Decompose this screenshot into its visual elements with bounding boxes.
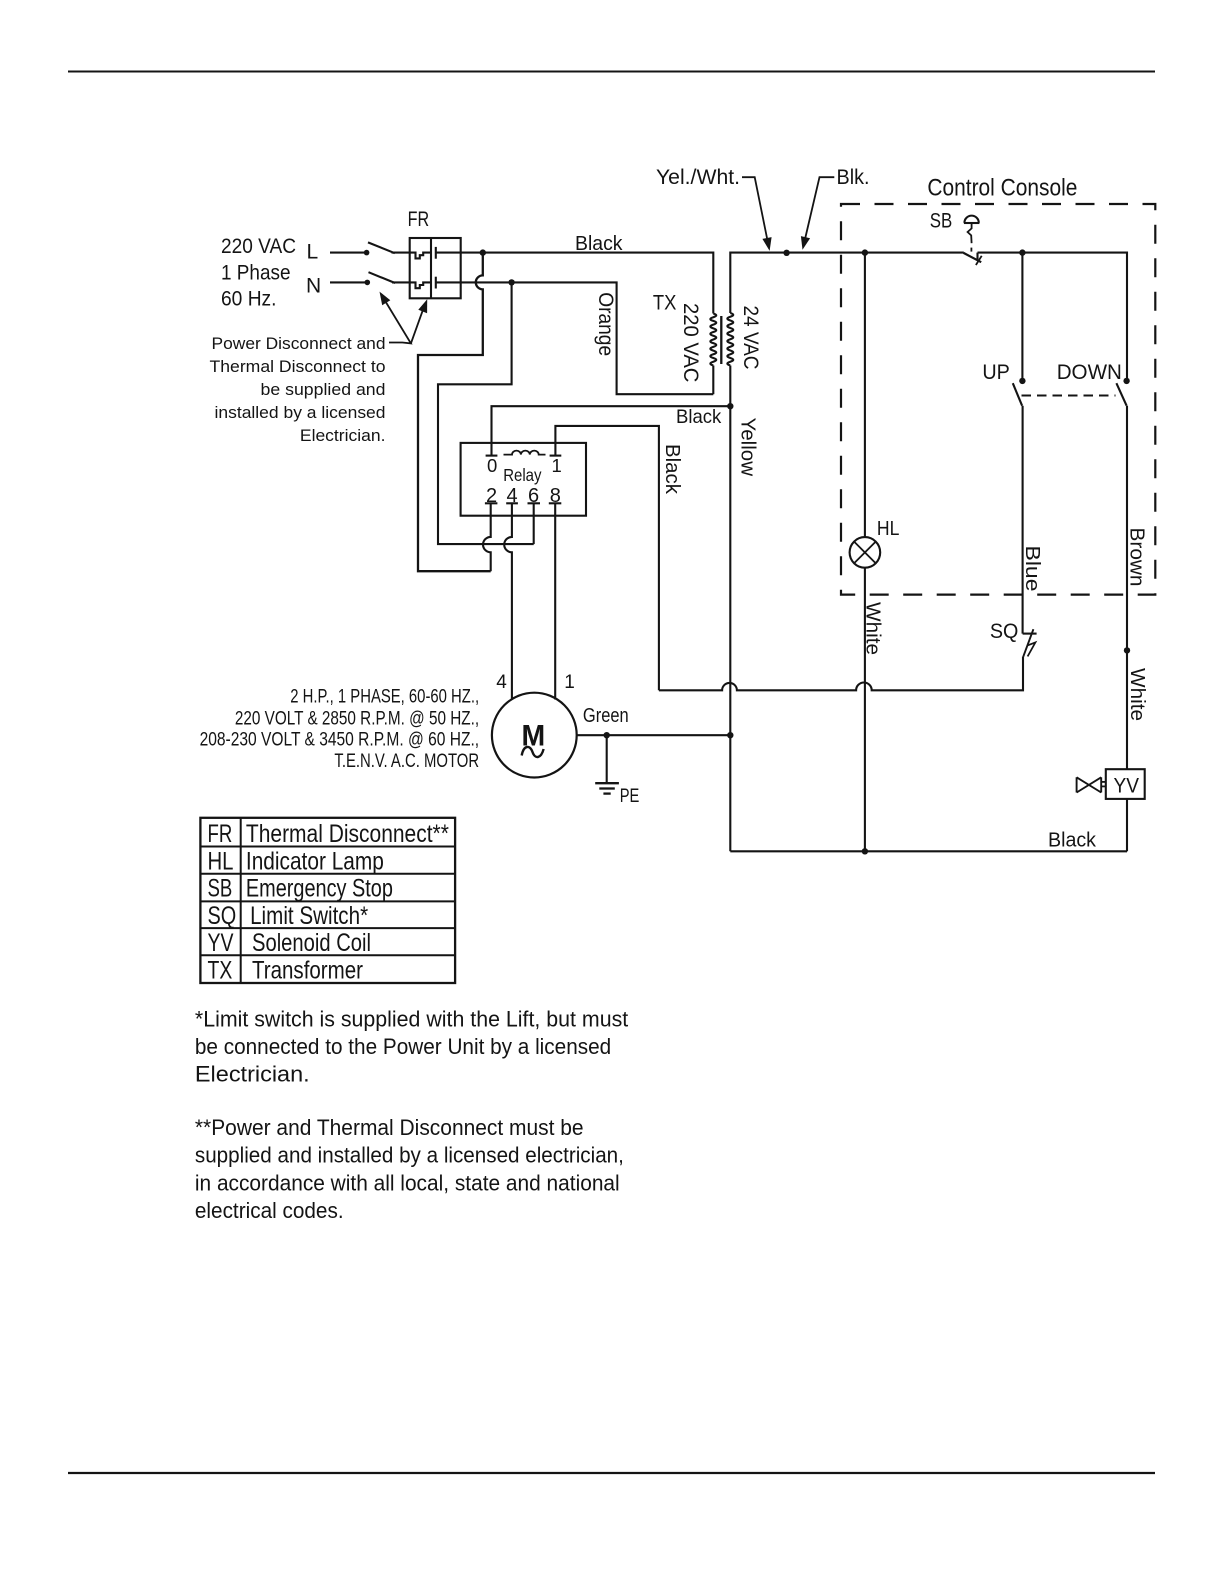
svg-text:HL: HL — [208, 847, 234, 875]
svg-text:FR: FR — [408, 208, 430, 231]
page top rule — [68, 71, 1155, 73]
SB blade tick — [976, 256, 982, 265]
transformer TX primary bottom lead — [712, 366, 714, 395]
relay pin 0 tick — [486, 455, 498, 457]
ground PE stem — [606, 735, 608, 782]
control console dashed box — [841, 204, 1155, 595]
FR contact bar N row — [435, 277, 437, 289]
node: junction on L wire — [480, 249, 486, 255]
svg-text:electrical codes.: electrical codes. — [195, 1198, 344, 1223]
svg-text:Indicator Lamp: Indicator Lamp — [246, 847, 384, 875]
svg-text:Yel./Wht.: Yel./Wht. — [656, 166, 740, 189]
relay pin 4 tick — [506, 502, 518, 504]
svg-text:White: White — [861, 602, 884, 655]
svg-text:T.E.N.V. A.C. MOTOR: T.E.N.V. A.C. MOTOR — [334, 751, 479, 772]
svg-text:YV: YV — [208, 929, 234, 957]
ground PE bars — [595, 782, 619, 784]
svg-text:4: 4 — [507, 485, 518, 507]
SQ upper terminal tick — [1023, 633, 1037, 635]
transformer TX primary winding — [710, 314, 716, 366]
svg-text:0: 0 — [487, 455, 497, 476]
svg-text:be supplied and: be supplied and — [261, 381, 386, 399]
svg-text:Brown: Brown — [1126, 528, 1149, 587]
svg-text:Green: Green — [583, 704, 629, 727]
svg-text:60 Hz.: 60 Hz. — [221, 287, 277, 311]
svg-text:SB: SB — [930, 210, 953, 233]
wire: Black from FR to transformer primary — [436, 253, 714, 314]
transformer TX secondary winding — [727, 313, 733, 366]
thermal disconnect FR box — [410, 238, 461, 298]
indicator lamp HL — [850, 537, 881, 568]
svg-text:**Power and Thermal Disconnect: **Power and Thermal Disconnect must be — [195, 1115, 584, 1140]
wire: YV to bottom rail — [1126, 799, 1128, 851]
wire: relay pin 1 up, right, down and along bottom with hops to SQ — [555, 426, 1023, 690]
motor sine mark — [522, 747, 544, 757]
svg-text:220 VOLT & 2850 R.P.M. @ 50 HZ: 220 VOLT & 2850 R.P.M. @ 50 HZ., — [235, 709, 479, 730]
svg-text:supplied and installed by a li: supplied and installed by a licensed ele… — [195, 1143, 624, 1168]
svg-text:24 VAC: 24 VAC — [739, 306, 762, 370]
svg-text:N: N — [306, 274, 321, 297]
svg-text:PE: PE — [620, 786, 640, 807]
node: UP switch contact — [1019, 378, 1025, 384]
FR thermal element N row — [392, 282, 431, 288]
node: junction on N wire — [508, 279, 514, 285]
svg-text:220 VAC: 220 VAC — [679, 303, 702, 382]
SB right terminal stub — [976, 253, 978, 260]
wire: L input lead — [330, 252, 367, 254]
svg-text:Yellow: Yellow — [737, 418, 760, 477]
svg-text:SQ: SQ — [990, 620, 1019, 643]
svg-text:Transformer: Transformer — [252, 957, 363, 985]
wire: Brown/White right side down to YV — [1126, 406, 1128, 770]
svg-text:be connected to the Power Unit: be connected to the Power Unit by a lice… — [195, 1034, 611, 1059]
switch blade: power disconnect N pole — [369, 272, 396, 283]
node: HL branch junction — [862, 249, 868, 255]
leader line for Yel./Wht. label — [742, 177, 768, 242]
solenoid coil YV box — [1106, 769, 1145, 799]
page bottom rule — [68, 1472, 1155, 1474]
relay pin 1 tick — [550, 455, 562, 457]
node: PE tap junction — [604, 732, 610, 738]
wire: N input lead — [330, 281, 367, 283]
svg-text:SB: SB — [208, 875, 233, 903]
wire: White from lamp down to bottom rail — [864, 568, 866, 852]
wire: bottom Black rail — [730, 850, 1127, 852]
wire: 24VAC rail right of SB to DOWN corner — [978, 253, 1128, 381]
svg-text:Thermal Disconnect**: Thermal Disconnect** — [246, 820, 449, 848]
relay pin 2 tick — [485, 502, 498, 504]
wire: relay pin 8 drop to motor — [554, 503, 556, 699]
svg-text:White: White — [1126, 668, 1149, 721]
svg-text:Orange: Orange — [594, 292, 617, 356]
SQ blade notch — [1027, 642, 1035, 656]
wire: relay pin 6 drop — [533, 503, 535, 544]
transformer TX core — [720, 316, 722, 364]
wire: UP branch down — [1021, 253, 1023, 381]
svg-text:Solenoid Coil: Solenoid Coil — [252, 929, 371, 957]
svg-text:*Limit switch is supplied with: *Limit switch is supplied with the Lift,… — [195, 1006, 628, 1031]
svg-text:Blk.: Blk. — [837, 166, 870, 189]
svg-text:2 H.P., 1 PHASE, 60-60 HZ.,: 2 H.P., 1 PHASE, 60-60 HZ., — [290, 687, 479, 708]
SB actuator dash — [970, 248, 972, 252]
svg-text:in accordance with all local,: in accordance with all local, state and … — [195, 1170, 620, 1195]
svg-text:Thermal Disconnect to: Thermal Disconnect to — [210, 358, 386, 376]
svg-text:208-230 VOLT & 3450 R.P.M. @ 6: 208-230 VOLT & 3450 R.P.M. @ 60 HZ., — [200, 730, 480, 751]
svg-text:1 Phase: 1 Phase — [221, 260, 291, 284]
node: Yellow/Black junction — [727, 403, 733, 409]
relay coil — [504, 451, 546, 455]
svg-text:Black: Black — [676, 406, 722, 428]
svg-text:YV: YV — [1114, 774, 1140, 797]
svg-text:Emergency Stop: Emergency Stop — [246, 875, 393, 903]
svg-text:1: 1 — [564, 672, 575, 693]
svg-text:FR: FR — [208, 820, 233, 848]
svg-text:DOWN: DOWN — [1057, 361, 1122, 384]
svg-text:Black: Black — [661, 444, 684, 495]
svg-text:220 VAC: 220 VAC — [221, 234, 296, 258]
wire: relay pin 4 drop to motor with hop — [504, 503, 512, 699]
svg-text:1: 1 — [552, 455, 562, 476]
svg-text:Limit Switch*: Limit Switch* — [250, 902, 368, 930]
wire: Orange from N junction to transformer primary bottom — [436, 282, 714, 394]
svg-text:2: 2 — [486, 485, 497, 507]
node: N contact dot — [365, 280, 371, 286]
node: DOWN switch contact — [1123, 378, 1129, 384]
svg-text:Blue: Blue — [1021, 546, 1044, 592]
svg-text:Electrician.: Electrician. — [300, 427, 386, 445]
node: UP branch junction — [1019, 249, 1025, 255]
svg-text:Black: Black — [575, 232, 623, 255]
switch blade: DOWN pushbutton — [1116, 383, 1126, 406]
svg-text:Power Disconnect and: Power Disconnect and — [212, 335, 386, 353]
wire: relay pin 0 up and right to Yellow junction — [492, 406, 731, 455]
FR contact bar L row — [435, 247, 437, 259]
relay pin 6 tick — [528, 502, 541, 504]
svg-text:HL: HL — [877, 517, 900, 540]
svg-text:installed by a licensed: installed by a licensed — [215, 404, 386, 422]
leader line for Blk. label — [805, 177, 835, 240]
wire: from L junction down with hop over N wire, to relay pin 2 run — [418, 253, 491, 572]
svg-text:Relay: Relay — [503, 465, 542, 485]
svg-text:Black: Black — [1048, 828, 1097, 851]
switch blade: SQ limit switch — [1023, 629, 1033, 657]
node: Green/Yellow junction — [727, 732, 733, 738]
mechanical link dashed UP-DOWN — [1022, 394, 1116, 396]
svg-text:L: L — [307, 240, 319, 263]
wire: transformer secondary up to 24VAC rail — [730, 253, 964, 313]
svg-text:M: M — [522, 719, 546, 752]
wire: HL branch down to lamp — [864, 253, 866, 537]
node: Yel./Wht.-Blk. junction — [783, 250, 789, 256]
relay pin 8 tick — [549, 502, 562, 504]
svg-text:SQ: SQ — [208, 902, 237, 930]
switch blade: power disconnect L pole — [368, 242, 395, 253]
switch blade: UP pushbutton — [1013, 383, 1022, 406]
wire: relay pin 2 drop with hop — [483, 503, 491, 571]
svg-text:8: 8 — [550, 485, 561, 507]
node: junction on right wire — [1124, 647, 1130, 653]
FR thermal element L row — [392, 253, 432, 259]
SB actuator stem with kink — [968, 223, 972, 243]
node: White/bottom rail junction — [862, 848, 868, 854]
svg-text:4: 4 — [496, 672, 507, 693]
emergency stop SB mushroom head — [964, 216, 978, 223]
svg-text:TX: TX — [653, 290, 677, 314]
svg-text:Electrician.: Electrician. — [195, 1062, 310, 1087]
leader and arrows for power disconnect note — [385, 301, 411, 343]
valve symbol — [1077, 777, 1102, 792]
svg-text:6: 6 — [528, 485, 539, 507]
wire: Yellow vertical down to bottom rail — [729, 406, 731, 851]
wire: Green from motor to Yellow wire — [577, 734, 731, 736]
motor M circle — [492, 693, 577, 778]
node: L contact dot — [364, 250, 370, 256]
svg-text:UP: UP — [982, 361, 1010, 384]
svg-text:Control Console: Control Console — [927, 175, 1077, 202]
wire: Blue from UP switch down to SQ — [1022, 406, 1024, 634]
relay box — [461, 443, 586, 516]
wire: secondary bottom lead to Yellow junction — [729, 366, 731, 407]
SB switch blade — [964, 253, 982, 262]
legend table frame — [200, 818, 455, 983]
svg-text:TX: TX — [208, 957, 233, 985]
wire: from N junction down and over to relay pin 6 — [438, 282, 534, 544]
